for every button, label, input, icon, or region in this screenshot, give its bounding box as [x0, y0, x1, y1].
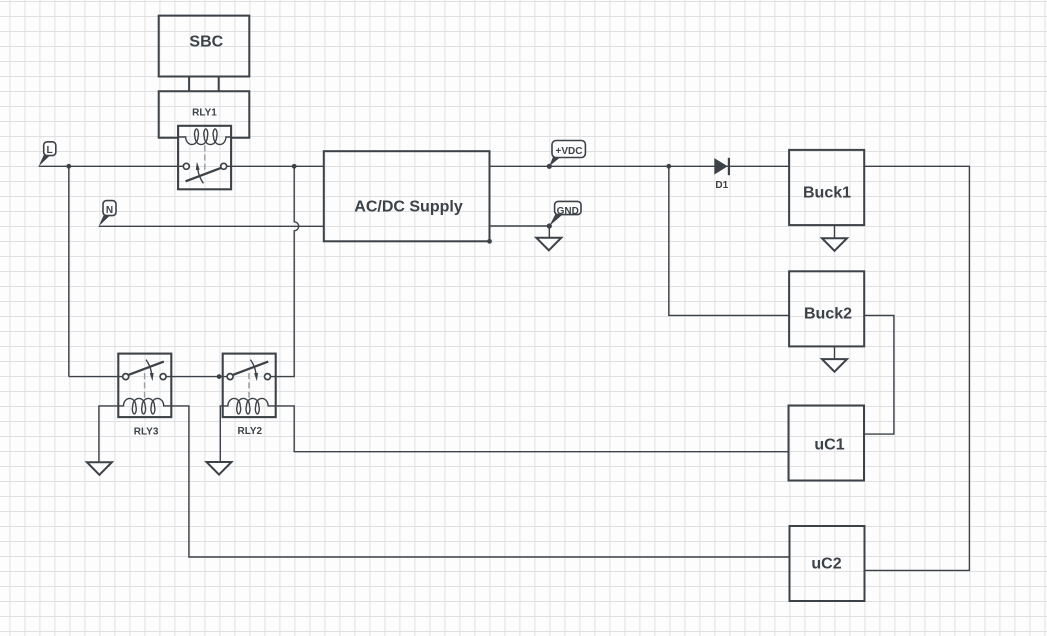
svg-text:N: N — [106, 205, 113, 216]
svg-text:RLY2: RLY2 — [237, 426, 262, 437]
svg-text:AC/DC Supply: AC/DC Supply — [354, 198, 463, 215]
svg-text:D1: D1 — [715, 180, 728, 191]
svg-text:GND: GND — [557, 206, 579, 217]
svg-text:Buck1: Buck1 — [803, 184, 851, 201]
svg-text:+VDC: +VDC — [556, 146, 583, 157]
svg-text:Buck2: Buck2 — [804, 305, 852, 322]
svg-text:L: L — [47, 145, 53, 156]
svg-text:SBC: SBC — [189, 34, 223, 51]
svg-text:uC1: uC1 — [814, 436, 844, 453]
svg-text:RLY3: RLY3 — [134, 426, 159, 437]
svg-text:uC2: uC2 — [811, 556, 841, 573]
svg-text:RLY1: RLY1 — [192, 107, 217, 118]
